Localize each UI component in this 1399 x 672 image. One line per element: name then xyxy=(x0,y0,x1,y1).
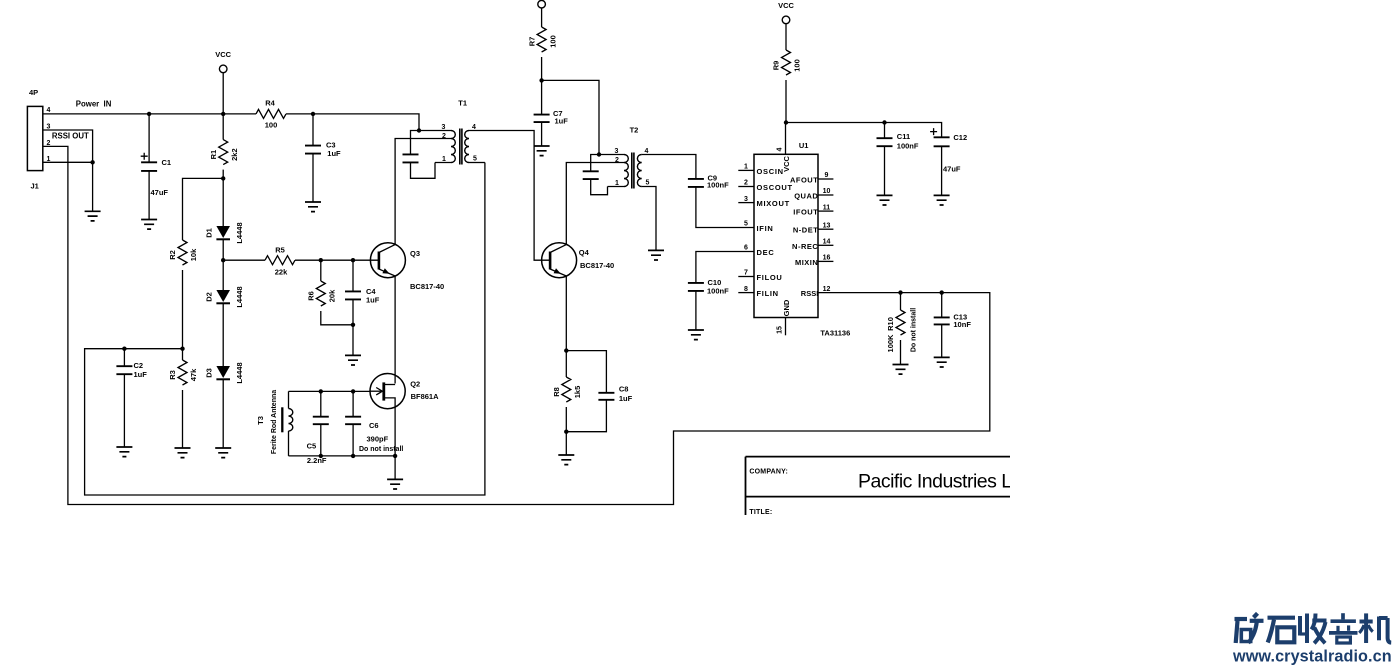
svg-text:4: 4 xyxy=(47,107,51,114)
pin 7 FILOU xyxy=(738,270,782,282)
diode D2 L4448 xyxy=(205,260,245,366)
svg-text:12: 12 xyxy=(823,286,831,293)
svg-text:DEC: DEC xyxy=(757,248,775,257)
node R8/C8 bottom junction xyxy=(564,430,568,434)
title block TITLE label xyxy=(749,509,772,516)
pin 9 AFOUT xyxy=(790,172,833,184)
pin 10 QUAD xyxy=(794,188,833,200)
svg-text:3: 3 xyxy=(442,124,446,131)
node T2 top junction xyxy=(597,152,601,156)
pin 3 MIXOUT xyxy=(738,196,790,208)
svg-text:1: 1 xyxy=(744,164,748,171)
pin 4 VCC stub xyxy=(777,123,791,172)
title block company name xyxy=(858,471,1032,493)
wire T2 pin4 to C9 xyxy=(642,155,696,179)
wire Q2 source to ground xyxy=(394,456,396,480)
svg-text:20k: 20k xyxy=(328,289,337,302)
watermark logo ji xyxy=(1359,613,1391,643)
ground at C13 xyxy=(934,357,950,367)
svg-text:R7: R7 xyxy=(527,37,536,47)
pin labels T2 xyxy=(615,148,650,187)
svg-text:MIXIN: MIXIN xyxy=(795,258,818,267)
node R6 junction xyxy=(319,258,323,262)
node Q2 source junction xyxy=(393,454,397,458)
capacitor C4 xyxy=(345,260,380,355)
svg-text:N-DET: N-DET xyxy=(793,226,818,235)
ground at D3 xyxy=(215,448,231,458)
svg-text:FILOU: FILOU xyxy=(757,273,783,282)
svg-text:1uF: 1uF xyxy=(555,117,569,126)
svg-text:Q3: Q3 xyxy=(410,249,420,258)
node C11 junction xyxy=(882,120,886,124)
svg-text:R3: R3 xyxy=(168,370,177,380)
svg-text:C8: C8 xyxy=(619,385,629,394)
pin 16 MIXIN xyxy=(795,255,833,267)
capacitor C8 xyxy=(566,351,632,432)
node C3 junction xyxy=(311,112,315,116)
svg-text:100K: 100K xyxy=(886,334,895,353)
connector J1 (4P header) xyxy=(27,88,50,190)
pin 15 GND stub xyxy=(777,299,791,335)
net label Power IN xyxy=(76,100,112,109)
capacitor C5 xyxy=(307,391,329,465)
svg-text:C6: C6 xyxy=(369,421,379,430)
svg-text:IFOUT: IFOUT xyxy=(793,208,818,217)
svg-text:1uF: 1uF xyxy=(619,394,633,403)
capacitor C10 xyxy=(688,252,754,331)
svg-text:100nF: 100nF xyxy=(707,180,729,189)
svg-text:FILIN: FILIN xyxy=(757,289,779,298)
svg-text:1uF: 1uF xyxy=(134,370,148,379)
node C5 bottom junction xyxy=(319,454,323,458)
svg-text:L4448: L4448 xyxy=(235,222,244,243)
capacitor C12 xyxy=(930,128,967,195)
node C6 bottom junction xyxy=(351,454,355,458)
wire T2 pin5 to ground xyxy=(642,187,656,251)
svg-text:1: 1 xyxy=(615,180,619,187)
svg-text:Q4: Q4 xyxy=(579,248,590,257)
svg-text:L4448: L4448 xyxy=(235,286,244,307)
node R2/R3 junction xyxy=(180,347,184,351)
svg-text:www.crystalradio.cn: www.crystalradio.cn xyxy=(1232,648,1392,666)
svg-text:N-REC: N-REC xyxy=(792,242,818,251)
svg-text:1uF: 1uF xyxy=(327,149,341,158)
pin labels T1 xyxy=(442,124,478,163)
svg-text:R4: R4 xyxy=(265,99,275,108)
svg-text:100: 100 xyxy=(265,121,278,130)
svg-text:BC817-40: BC817-40 xyxy=(410,282,444,291)
wire RSSI OUT return (pin2 to U1 pin12) xyxy=(43,146,990,504)
svg-text:MIXOUT: MIXOUT xyxy=(757,199,790,208)
transformer T2 secondary xyxy=(637,155,641,187)
pin 2 OSCOUT xyxy=(738,180,792,192)
transformer T1 secondary xyxy=(465,131,469,163)
title block COMPANY label xyxy=(749,469,788,476)
ground at C2 xyxy=(116,447,132,457)
svg-text:22k: 22k xyxy=(275,267,288,276)
op-amp U1 TA31136 body xyxy=(754,141,850,337)
svg-text:5: 5 xyxy=(473,156,477,163)
svg-text:2: 2 xyxy=(442,133,446,140)
node R10 junction xyxy=(898,290,902,294)
resistor R6 xyxy=(307,260,354,325)
wire J1 pin4 Power IN rail xyxy=(43,114,419,131)
svg-text:C2: C2 xyxy=(134,361,144,370)
watermark logo yin xyxy=(1329,613,1358,643)
svg-text:1k5: 1k5 xyxy=(573,386,582,399)
svg-text:C1: C1 xyxy=(162,158,172,167)
svg-text:1: 1 xyxy=(442,156,446,163)
svg-text:T2: T2 xyxy=(630,126,639,135)
ground at C7 xyxy=(534,146,550,156)
svg-text:Pacific Industries Ltd.: Pacific Industries Ltd. xyxy=(858,471,1032,493)
node C5 top junction xyxy=(319,389,323,393)
svg-text:390pF: 390pF xyxy=(367,434,389,443)
svg-text:R2: R2 xyxy=(168,250,177,260)
capacitor C7 xyxy=(534,80,569,146)
svg-text:AFOUT: AFOUT xyxy=(790,176,818,185)
resistor R9 xyxy=(772,50,802,123)
svg-text:4: 4 xyxy=(472,124,476,131)
wire R7 to T2 xyxy=(542,80,599,154)
svg-text:8: 8 xyxy=(744,286,748,293)
wire D1 junction to R5 xyxy=(223,259,265,261)
svg-text:2: 2 xyxy=(744,180,748,187)
watermark logo kuang xyxy=(1235,613,1264,643)
wire J1 pin3 to ground junction xyxy=(43,130,93,162)
svg-text:C12: C12 xyxy=(953,133,967,142)
wire tank bottom xyxy=(289,455,396,457)
title block frame xyxy=(746,457,1011,515)
svg-text:10: 10 xyxy=(823,188,831,195)
ground at R10 xyxy=(893,365,909,375)
ground at C12 xyxy=(934,195,950,205)
ground at C3 xyxy=(305,202,321,212)
transformer T1 core xyxy=(460,129,462,165)
svg-text:2k2: 2k2 xyxy=(230,148,239,161)
capacitor C1 xyxy=(141,114,171,220)
svg-text:OSCOUT: OSCOUT xyxy=(757,183,793,192)
label T1 xyxy=(458,99,467,108)
svg-text:R9: R9 xyxy=(772,61,781,71)
svg-text:Q2: Q2 xyxy=(410,379,420,388)
pin 14 N-REC xyxy=(792,239,833,251)
node R1/R2/D1 junction xyxy=(221,176,225,180)
svg-text:QUAD: QUAD xyxy=(794,192,818,201)
svg-text:D2: D2 xyxy=(205,292,214,302)
svg-text:1uF: 1uF xyxy=(366,296,380,305)
wire tank top xyxy=(289,390,371,392)
capacitor T1 tank (unlabeled) xyxy=(403,131,436,179)
svg-text:47uF: 47uF xyxy=(151,188,169,197)
diode D1 L4448 xyxy=(205,178,245,260)
svg-text:R6: R6 xyxy=(307,291,316,301)
svg-text:RSSI OUT: RSSI OUT xyxy=(52,132,89,141)
ground at J1 xyxy=(85,211,101,221)
node R9/U1 VCC junction xyxy=(784,120,788,124)
node R8/C8 top junction xyxy=(564,348,568,352)
svg-text:J1: J1 xyxy=(31,181,39,190)
node R7/C7 junction xyxy=(539,78,543,82)
node C13 junction xyxy=(940,290,944,294)
svg-text:47uF: 47uF xyxy=(943,164,961,173)
transistor Q3 BC817-40 xyxy=(370,243,444,291)
transistor Q4 BC817-40 xyxy=(542,243,615,278)
resistor R2 xyxy=(168,240,198,349)
capacitor C13 xyxy=(934,293,972,358)
svg-text:100nF: 100nF xyxy=(707,287,729,296)
svg-text:R1: R1 xyxy=(209,150,218,160)
transformer T1 primary xyxy=(419,131,455,163)
svg-text:Power IN: Power IN xyxy=(76,100,112,109)
resistor R5 xyxy=(265,246,295,277)
svg-text:GND: GND xyxy=(782,299,791,316)
svg-text:OSCIN: OSCIN xyxy=(757,167,784,176)
wire R5 to Q3 base xyxy=(295,259,379,261)
resistor R4 xyxy=(256,99,286,130)
ground at C10 xyxy=(688,330,704,340)
pin 12 RSSI xyxy=(801,286,831,298)
transformer T2 core xyxy=(632,153,634,189)
label T2 xyxy=(630,126,639,135)
svg-text:VCC: VCC xyxy=(778,1,794,10)
transistor Q2 BF861A xyxy=(370,374,439,456)
svg-text:100nF: 100nF xyxy=(897,141,919,150)
wire Q3 emitter to Q2 drain xyxy=(394,276,396,384)
ground at C4 xyxy=(345,355,361,365)
svg-text:D1: D1 xyxy=(205,228,214,238)
capacitor T2 tank (unlabeled) xyxy=(583,155,608,195)
svg-text:2.2nF: 2.2nF xyxy=(307,456,327,465)
wire T2 tap to Q4 collector xyxy=(566,163,624,245)
svg-text:R10: R10 xyxy=(886,317,895,331)
ground at R8 xyxy=(558,455,574,465)
node C6 top junction xyxy=(351,389,355,393)
svg-text:3: 3 xyxy=(744,196,748,203)
ground at T2 pin5 xyxy=(648,250,664,260)
svg-text:13: 13 xyxy=(823,222,831,229)
pin 8 FILIN xyxy=(738,286,778,298)
svg-text:R5: R5 xyxy=(275,246,285,255)
svg-text:U1: U1 xyxy=(799,141,809,150)
node R6/C4 bottom junction xyxy=(351,323,355,327)
svg-text:C11: C11 xyxy=(897,132,910,141)
node Power rail / R1 junction xyxy=(221,112,225,116)
svg-text:BC817-40: BC817-40 xyxy=(580,261,614,270)
wire T1 pin5 down xyxy=(469,162,485,164)
capacitor C11 xyxy=(877,123,919,196)
svg-text:14: 14 xyxy=(823,239,831,246)
svg-text:47k: 47k xyxy=(189,368,198,381)
pin 5 IFIN xyxy=(744,221,773,233)
svg-text:TA31136: TA31136 xyxy=(820,328,850,337)
svg-text:T1: T1 xyxy=(458,99,467,108)
node C2 junction xyxy=(122,347,126,351)
svg-text:TITLE:: TITLE: xyxy=(749,509,772,516)
wire T1 pin4 to Q4 base xyxy=(469,131,550,261)
svg-text:L4448: L4448 xyxy=(235,362,244,383)
svg-text:3: 3 xyxy=(615,148,619,155)
node T1 top junction xyxy=(417,128,421,132)
pin 11 IFOUT xyxy=(793,204,833,216)
svg-text:C10: C10 xyxy=(708,278,722,287)
resistor R1 xyxy=(209,114,239,178)
watermark logo shi xyxy=(1268,618,1296,643)
svg-text:6: 6 xyxy=(744,245,748,252)
node C1 junction xyxy=(147,112,151,116)
svg-text:VCC: VCC xyxy=(215,50,231,59)
watermark logo shou xyxy=(1300,614,1327,644)
svg-text:10k: 10k xyxy=(189,248,198,261)
inductor T3 Ferite Rod Antenna xyxy=(256,390,293,456)
wire R8 bottom to ground xyxy=(565,432,567,455)
svg-text:9: 9 xyxy=(825,172,829,179)
capacitor C9 xyxy=(688,174,754,228)
resistor R8 xyxy=(552,377,582,432)
svg-text:2: 2 xyxy=(615,157,619,164)
node C4 junction xyxy=(351,258,355,262)
pin 1 OSCIN xyxy=(738,164,783,176)
svg-text:3: 3 xyxy=(47,123,51,130)
svg-text:4: 4 xyxy=(645,148,649,155)
svg-text:4: 4 xyxy=(777,147,784,151)
svg-text:7: 7 xyxy=(744,270,748,277)
svg-text:4P: 4P xyxy=(29,88,38,97)
svg-text:COMPANY:: COMPANY: xyxy=(749,469,788,476)
ground at C1 xyxy=(141,220,157,230)
wire J1 pin1 to ground junction xyxy=(43,161,93,163)
resistor R7 xyxy=(527,27,557,80)
svg-text:R8: R8 xyxy=(552,387,561,397)
pin 13 N-DET xyxy=(793,222,834,234)
node D1/D2/R5 junction xyxy=(221,258,225,262)
svg-text:Do not install: Do not install xyxy=(911,308,918,352)
svg-text:5: 5 xyxy=(646,180,650,187)
transformer T2 primary xyxy=(599,155,628,187)
svg-text:5: 5 xyxy=(744,221,748,228)
svg-text:Do not install: Do not install xyxy=(359,446,403,453)
svg-text:15: 15 xyxy=(777,326,784,334)
ground at Q2 source xyxy=(387,479,403,489)
watermark url www.crystalradio.cn xyxy=(1232,648,1392,666)
svg-text:100: 100 xyxy=(548,35,557,48)
svg-text:D3: D3 xyxy=(205,368,214,378)
svg-text:BF861A: BF861A xyxy=(411,392,440,401)
svg-text:16: 16 xyxy=(823,255,831,262)
svg-text:100: 100 xyxy=(793,59,802,72)
resistor R3 xyxy=(168,349,198,448)
svg-text:11: 11 xyxy=(823,204,831,211)
net label RSSI OUT xyxy=(52,132,89,141)
wire junction to ground xyxy=(92,162,94,211)
svg-text:C5: C5 xyxy=(307,442,317,451)
node J1 pin1/pin3 junction xyxy=(90,160,94,164)
wire VCC rail to C11 C12 xyxy=(786,123,942,138)
wire shield return bus xyxy=(85,163,485,496)
svg-text:T3: T3 xyxy=(256,416,265,425)
svg-text:10nF: 10nF xyxy=(953,320,971,329)
ground at R3 xyxy=(175,448,191,458)
capacitor C3 xyxy=(305,114,341,202)
power VCC (left) xyxy=(215,50,231,114)
diode D3 L4448 xyxy=(205,362,245,448)
svg-text:Ferite Rod Antenna: Ferite Rod Antenna xyxy=(271,390,278,454)
capacitor C6 xyxy=(345,391,403,456)
ground at C11 xyxy=(877,195,893,205)
svg-text:RSSI: RSSI xyxy=(801,289,819,298)
wire Q4 emitter to R8 xyxy=(565,276,567,377)
wire R1 bottom to R2 top xyxy=(183,178,224,240)
resistor R10 xyxy=(886,293,917,365)
svg-text:IFIN: IFIN xyxy=(757,224,774,233)
pin 6 DEC xyxy=(744,245,774,257)
wire Q3 collector to T1 tap xyxy=(395,139,451,245)
power VCC (R7 top) xyxy=(538,0,546,27)
capacitor C2 xyxy=(116,349,147,447)
power VCC (U1) xyxy=(778,1,794,50)
